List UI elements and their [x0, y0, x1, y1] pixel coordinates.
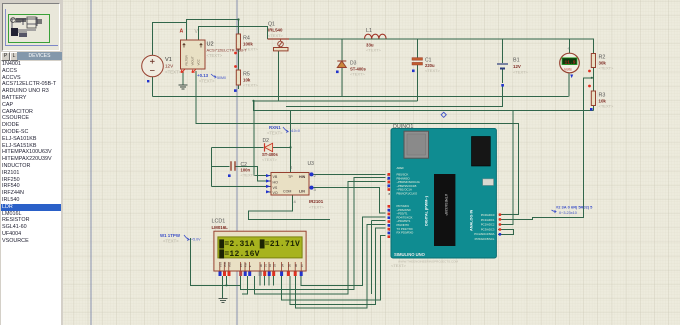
svg-text:TP: TP	[288, 175, 293, 179]
svg-text:VCC: VCC	[197, 58, 201, 65]
wire B1 to rail3	[502, 86, 504, 106]
svg-text:<TEXT>: <TEXT>	[391, 263, 407, 268]
wire C2 left lead	[211, 165, 229, 167]
P button	[1, 52, 10, 61]
svg-text:█=2.31A █=21.71V: █=2.31A █=21.71V	[219, 239, 300, 249]
wire bus D7	[301, 217, 385, 285]
svg-text:VB: VB	[273, 175, 278, 179]
node marker D3	[336, 71, 339, 74]
wire C2 left column	[210, 147, 212, 186]
svg-text:IR2101: IR2101	[309, 199, 324, 204]
wire LCD RW to ground bar	[223, 276, 248, 294]
op-amp U2 ACS712 current sensor	[181, 40, 248, 69]
node marker V1 minus	[147, 80, 149, 82]
lcd pin stubs	[220, 262, 301, 271]
node marker voltmeter	[570, 75, 573, 79]
svg-text:LCD1: LCD1	[212, 219, 226, 225]
wire R4 bottom to R5 top	[238, 49, 240, 70]
svg-text:A: A	[180, 29, 184, 35]
svg-text:Volts: Volts	[564, 68, 572, 72]
wire bottom rail 2	[254, 100, 418, 102]
left pin labels upper	[397, 166, 420, 196]
wire U3 HIN from arduino	[254, 175, 271, 177]
svg-text:COM: COM	[283, 190, 291, 194]
svg-text:<TEXT>: <TEXT>	[599, 104, 615, 109]
wire LCD VSS to ground	[222, 276, 224, 298]
wire bottom rail 3	[286, 105, 503, 107]
probe blue PWM near D2	[267, 125, 300, 136]
svg-text:PC0/ADC0: PC0/ADC0	[481, 213, 495, 217]
svg-text:VSS: VSS	[219, 262, 223, 267]
node marker C1	[412, 70, 415, 73]
svg-text:RS: RS	[239, 263, 243, 267]
svg-text:V1: V1	[165, 57, 172, 63]
wire D3 bottom	[341, 68, 343, 97]
left pin labels lower	[397, 204, 414, 235]
wire D2 cathode to U3 VB column	[273, 146, 291, 148]
wire R5 bottom stub	[238, 85, 240, 89]
voltmeter	[560, 46, 580, 73]
svg-text:+0.13: +0.13	[197, 73, 209, 78]
capacitor C1	[412, 58, 441, 74]
resistor R5	[236, 70, 258, 88]
diode D3	[337, 61, 366, 77]
pin arrows arduino left	[388, 173, 391, 238]
origin marker diamond	[441, 112, 446, 117]
svg-text:<TEXT>: <TEXT>	[268, 33, 284, 38]
svg-text:<TEXT>: <TEXT>	[163, 239, 179, 244]
svg-text:D2: D2	[268, 263, 272, 267]
svg-text:+5.0V: +5.0V	[191, 238, 201, 242]
svg-text:<TEXT>: <TEXT>	[513, 70, 529, 75]
wire U2 IP+ node to R4 top	[187, 20, 239, 41]
pin arrow U2 gnd	[181, 70, 185, 73]
svg-text:<TEXT>: <TEXT>	[243, 47, 259, 52]
svg-text:B1: B1	[513, 58, 520, 64]
battery B1	[497, 58, 529, 75]
svg-text:<TEXT>: <TEXT>	[425, 68, 441, 73]
pin arrows U3 left	[266, 174, 270, 193]
op-amp U3 IR2101	[271, 161, 325, 209]
sheet axis line left	[90, 0, 92, 325]
svg-text:HO: HO	[273, 181, 279, 185]
wire voltmeter top	[569, 39, 571, 54]
overview mini schematic	[3, 4, 59, 50]
wire arduino A-row stubs	[498, 230, 514, 235]
svg-text:ANALOG IN: ANALOG IN	[470, 209, 474, 231]
svg-text:D6: D6	[294, 263, 298, 267]
ground under U2	[179, 85, 188, 89]
svg-text:RXN1: RXN1	[269, 125, 281, 130]
wire top rail Q1 to right corner	[289, 39, 594, 54]
svg-text:LM016L: LM016L	[212, 225, 229, 230]
pin circles U3 right	[310, 172, 314, 189]
node red dots R2/R3	[588, 70, 591, 73]
svg-text:U3: U3	[308, 161, 315, 167]
svg-text:FILTER: FILTER	[185, 55, 189, 66]
wire D0-D3 stubs	[260, 276, 274, 286]
svg-text:PC4/ADC4/SDA: PC4/ADC4/SDA	[474, 232, 494, 236]
node red dot R4 bottom	[234, 52, 237, 55]
svg-text:DIGITAL (PWM~): DIGITAL (PWM~)	[425, 195, 429, 226]
wire U3 pin stubs left	[267, 191, 272, 193]
node marker C2	[228, 174, 231, 177]
DEVICES header	[17, 52, 62, 60]
svg-text:PB0/ICP1/CLKO: PB0/ICP1/CLKO	[397, 192, 418, 196]
svg-text:D7: D7	[300, 263, 304, 267]
svg-text:ATMEGA328P: ATMEGA328P	[443, 194, 447, 216]
lcd terminal arrows	[219, 272, 303, 277]
svg-text:VIOUT: VIOUT	[191, 56, 195, 65]
wire D3 top	[341, 39, 343, 61]
wire rail3 branch down right A-pin	[501, 110, 513, 224]
node marker R3 bottom	[590, 108, 593, 111]
svg-text:D3: D3	[273, 263, 277, 267]
svg-text:VS: VS	[273, 186, 278, 190]
svg-text:IRL540: IRL540	[268, 28, 283, 33]
pin arrow U2 viout	[192, 70, 196, 73]
svg-text:D1: D1	[264, 263, 268, 267]
diode D2	[262, 138, 279, 162]
svg-text:<TEXT>: <TEXT>	[243, 83, 259, 88]
svg-text:<TEXT>: <TEXT>	[350, 72, 366, 77]
wire bus D6	[296, 224, 386, 308]
battery source V1	[142, 55, 182, 77]
arduino board DUINO1	[387, 129, 497, 259]
mini circuit scribbles	[27, 17, 36, 28]
resistor R2	[591, 54, 614, 71]
svg-text:x10=0: x10=0	[290, 129, 300, 133]
wire bottom rail 4	[256, 109, 594, 111]
wire rail2 to rail4 jog	[254, 101, 257, 111]
svg-text:RX PD0/RXD: RX PD0/RXD	[397, 231, 414, 235]
wire U2 gnd pin down	[182, 71, 184, 85]
svg-text:VO: VO	[273, 191, 278, 195]
device list	[1, 61, 61, 325]
wire R3 bottom to rail4	[593, 106, 595, 111]
svg-text:<TEXT>: <TEXT>	[207, 53, 223, 58]
wire bus RS	[241, 178, 386, 290]
svg-text:D5: D5	[287, 263, 291, 267]
wire voltmeter bottom	[568, 73, 570, 97]
right analog labels	[474, 213, 495, 241]
wire V1 bottom to ground rail	[152, 77, 154, 96]
svg-text:D2: D2	[263, 138, 270, 144]
wire R2 bottom junction	[593, 68, 595, 92]
wire U2 VIOUT long to arduino right	[196, 71, 519, 215]
digital pin numbers left of board	[387, 173, 391, 236]
sheet axis line mid	[236, 0, 238, 325]
wire arduino upper stub rows	[371, 221, 385, 294]
svg-text:<TEXT>: <TEXT>	[309, 204, 325, 209]
svg-text:PC5/ADC5/SCL: PC5/ADC5/SCL	[475, 237, 495, 241]
icsp header	[483, 179, 494, 186]
svg-text:D4: D4	[281, 263, 285, 267]
wire Q1 source down to rail2	[278, 51, 280, 101]
usb connector	[404, 131, 429, 158]
wire D2 anode from rail2	[253, 101, 255, 148]
svg-text:PC3/ADC3: PC3/ADC3	[481, 227, 495, 231]
overview window	[2, 3, 60, 51]
wire U3 COM bottom	[249, 195, 330, 219]
svg-text:<TEXT>: <TEXT>	[199, 79, 215, 84]
pin arrows arduino right A0-A5	[499, 213, 502, 236]
svg-text:ACS712ELCTR-05B-T: ACS712ELCTR-05B-T	[207, 48, 248, 53]
svg-text:D0: D0	[259, 263, 263, 267]
svg-text:W1 1TPW: W1 1TPW	[160, 233, 181, 238]
wire V1 top to U2 IP+	[153, 23, 187, 56]
resistor R4	[236, 34, 258, 52]
wire U3 LO elbow to arduino	[314, 188, 386, 214]
svg-text:█=12.16V: █=12.16V	[219, 249, 259, 259]
svg-text:<TEXT>: <TEXT>	[599, 66, 615, 71]
probe blue near LCD	[160, 233, 201, 244]
inductor L1	[365, 28, 387, 53]
probe blue right of arduino	[552, 205, 594, 216]
node marker R5 bottom	[234, 89, 237, 92]
svg-text:VDD: VDD	[223, 262, 227, 268]
svg-text:+: +	[567, 46, 570, 51]
wire R2R3 junction to A1 sense	[501, 78, 592, 220]
wire B1 bottom	[502, 69, 504, 84]
viewport green rect	[9, 15, 50, 43]
svg-text:<TEXT>: <TEXT>	[262, 157, 278, 162]
sheet edge lines blue	[5, 9, 58, 46]
svg-text:<TEXT>: <TEXT>	[165, 70, 182, 75]
svg-text:PC2/ADC2: PC2/ADC2	[481, 223, 495, 227]
wire B1 top	[502, 39, 504, 63]
wire LCD VDD to bus0	[191, 238, 227, 285]
wire bus E	[255, 181, 386, 293]
svg-text:12V: 12V	[165, 64, 174, 69]
svg-text:SIMULINO UNO: SIMULINO UNO	[394, 252, 426, 257]
wire D2 anode line	[211, 146, 263, 148]
svg-text:11.9: 11.9	[565, 59, 576, 65]
wire U3 VB column rail4 to U3 top	[290, 110, 292, 173]
wire bottom rail 1	[153, 95, 569, 97]
svg-text:RW: RW	[244, 262, 248, 267]
wire D2 node to U3 VB pin1	[253, 147, 255, 175]
L button	[10, 52, 18, 61]
svg-text:50M0: 50M0	[217, 76, 226, 80]
wire U3 VS pin3 from column	[211, 185, 271, 187]
svg-text:VEE: VEE	[228, 262, 232, 267]
node marker B1	[501, 84, 504, 87]
ground under LCD	[219, 298, 228, 302]
wire U3 HO to arduino row	[314, 173, 386, 175]
svg-text:PC1/ADC1: PC1/ADC1	[481, 218, 495, 222]
wire C1 bottom	[417, 65, 419, 101]
svg-text:#2 3A 0 6R| 5RJ2| 5: #2 3A 0 6R| 5RJ2| 5	[556, 205, 593, 210]
svg-text:0~3.23x10: 0~3.23x10	[559, 211, 577, 215]
svg-text:L1: L1	[366, 28, 372, 34]
wire C1 top	[417, 39, 419, 59]
svg-text:<TEXT>: <TEXT>	[241, 173, 257, 178]
wire U2 IP- to Q1 gate	[199, 27, 268, 41]
wire bus D5	[290, 228, 386, 304]
probe blue +88.0 near U2	[197, 73, 226, 84]
wire bus0 link	[227, 284, 241, 286]
svg-text:12V: 12V	[513, 64, 521, 69]
wire C2 right lead to U3 HO pin2	[236, 166, 272, 181]
svg-text:WWW.THEENGINEERINGPROJECTS.COM: WWW.THEENGINEERINGPROJECTS.COM	[398, 260, 459, 264]
svg-text:<TEXT>: <TEXT>	[267, 131, 283, 136]
svg-text:E: E	[248, 265, 252, 267]
atmega chip	[434, 174, 455, 246]
LCD display LM016L	[214, 231, 306, 271]
svg-text:HIN: HIN	[299, 175, 306, 179]
resistor R3	[591, 91, 614, 109]
svg-text:LIN: LIN	[299, 190, 305, 194]
svg-text:AREF: AREF	[397, 166, 405, 170]
svg-text:<TEXT>: <TEXT>	[366, 48, 382, 53]
left sidebar panel	[0, 0, 63, 325]
power jack	[472, 137, 491, 167]
transistor Q1 IRL540	[268, 22, 290, 51]
wire bus D4	[282, 236, 386, 300]
capacitor C2	[231, 161, 256, 177]
